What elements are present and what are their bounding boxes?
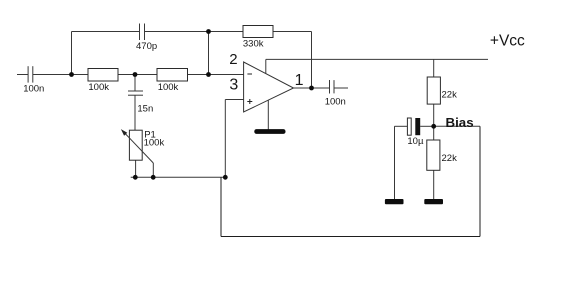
svg-text:15n: 15n bbox=[137, 103, 153, 114]
svg-text:22k: 22k bbox=[442, 89, 458, 100]
svg-text:100k: 100k bbox=[144, 138, 165, 149]
svg-text:100n: 100n bbox=[23, 84, 44, 95]
svg-text:100n: 100n bbox=[325, 96, 346, 107]
svg-text:Bias: Bias bbox=[446, 115, 474, 130]
svg-text:2: 2 bbox=[229, 51, 237, 68]
svg-text:22k: 22k bbox=[442, 153, 458, 164]
svg-text:100k: 100k bbox=[158, 82, 179, 93]
svg-text:10µ: 10µ bbox=[407, 136, 424, 147]
svg-text:+Vcc: +Vcc bbox=[490, 32, 525, 49]
svg-text:3: 3 bbox=[229, 77, 238, 94]
svg-text:1: 1 bbox=[295, 72, 304, 89]
svg-text:330k: 330k bbox=[243, 38, 264, 49]
svg-text:100k: 100k bbox=[88, 82, 109, 93]
svg-text:470p: 470p bbox=[136, 41, 157, 52]
